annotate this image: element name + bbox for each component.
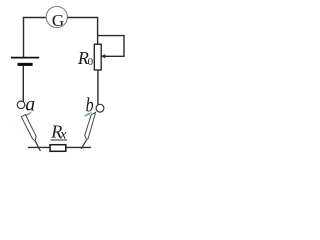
resistor Rx box xyxy=(50,145,66,152)
terminal a circle xyxy=(17,101,25,109)
battery short thick plate (negative) xyxy=(18,63,33,66)
wire: terminal b up to rheostat bottom xyxy=(97,70,99,104)
wire: bottom left segment to Rx xyxy=(28,146,50,148)
wire: battery negative down to terminal a xyxy=(22,66,24,101)
green contact mark at b (light) xyxy=(84,112,92,116)
green contact mark at a (dark) xyxy=(26,113,30,116)
rheostat R0 box xyxy=(94,44,101,70)
probe body at b (slanted plug from terminal b to Rx wire) xyxy=(85,113,96,140)
wiper arrowhead pointing left into R0 xyxy=(100,54,105,58)
galvanometer G circle xyxy=(46,6,67,27)
wire: battery positive up and right to galvanometer xyxy=(24,18,47,58)
probe tip at b crossing the wire xyxy=(81,140,86,149)
green contact mark at a (light) xyxy=(24,112,31,116)
green contact mark at b (dark) xyxy=(86,113,90,115)
probe tip at a crossing the wire xyxy=(35,141,40,151)
rheostat wiper branch wire xyxy=(98,36,124,57)
battery long plate (positive) xyxy=(11,57,39,59)
svg-text:0: 0 xyxy=(88,56,94,68)
probe body at a (slanted plug from terminal a to Rx wire) xyxy=(21,115,36,141)
svg-text:b: b xyxy=(86,94,94,116)
underline below Rx label xyxy=(51,139,68,141)
wire: galvanometer right to top-right corner, down to rheostat top xyxy=(67,18,97,45)
wire: bottom right segment from Rx xyxy=(66,146,91,148)
svg-text:G: G xyxy=(52,11,64,30)
terminal b circle xyxy=(96,104,104,112)
